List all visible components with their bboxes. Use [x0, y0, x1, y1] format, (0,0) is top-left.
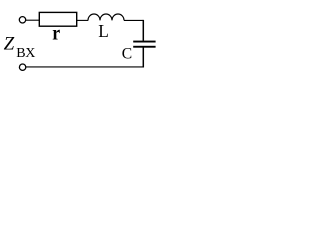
- svg-text:L: L: [98, 21, 109, 41]
- wire: [26, 19, 40, 21]
- svg-text:Z: Z: [4, 34, 15, 55]
- wire (bottom): [26, 66, 144, 68]
- capacitor C: [133, 41, 155, 43]
- svg-text:C: C: [122, 46, 132, 63]
- wire: [124, 19, 143, 21]
- svg-text:ВХ: ВХ: [16, 46, 35, 61]
- input terminal (top): [19, 17, 25, 23]
- wire: [142, 20, 144, 41]
- inductor L: [88, 14, 124, 20]
- resistor r: [39, 12, 76, 26]
- svg-text:r: r: [52, 22, 60, 44]
- wire: [142, 48, 144, 68]
- input terminal (bottom): [19, 64, 25, 70]
- wire: [77, 19, 89, 21]
